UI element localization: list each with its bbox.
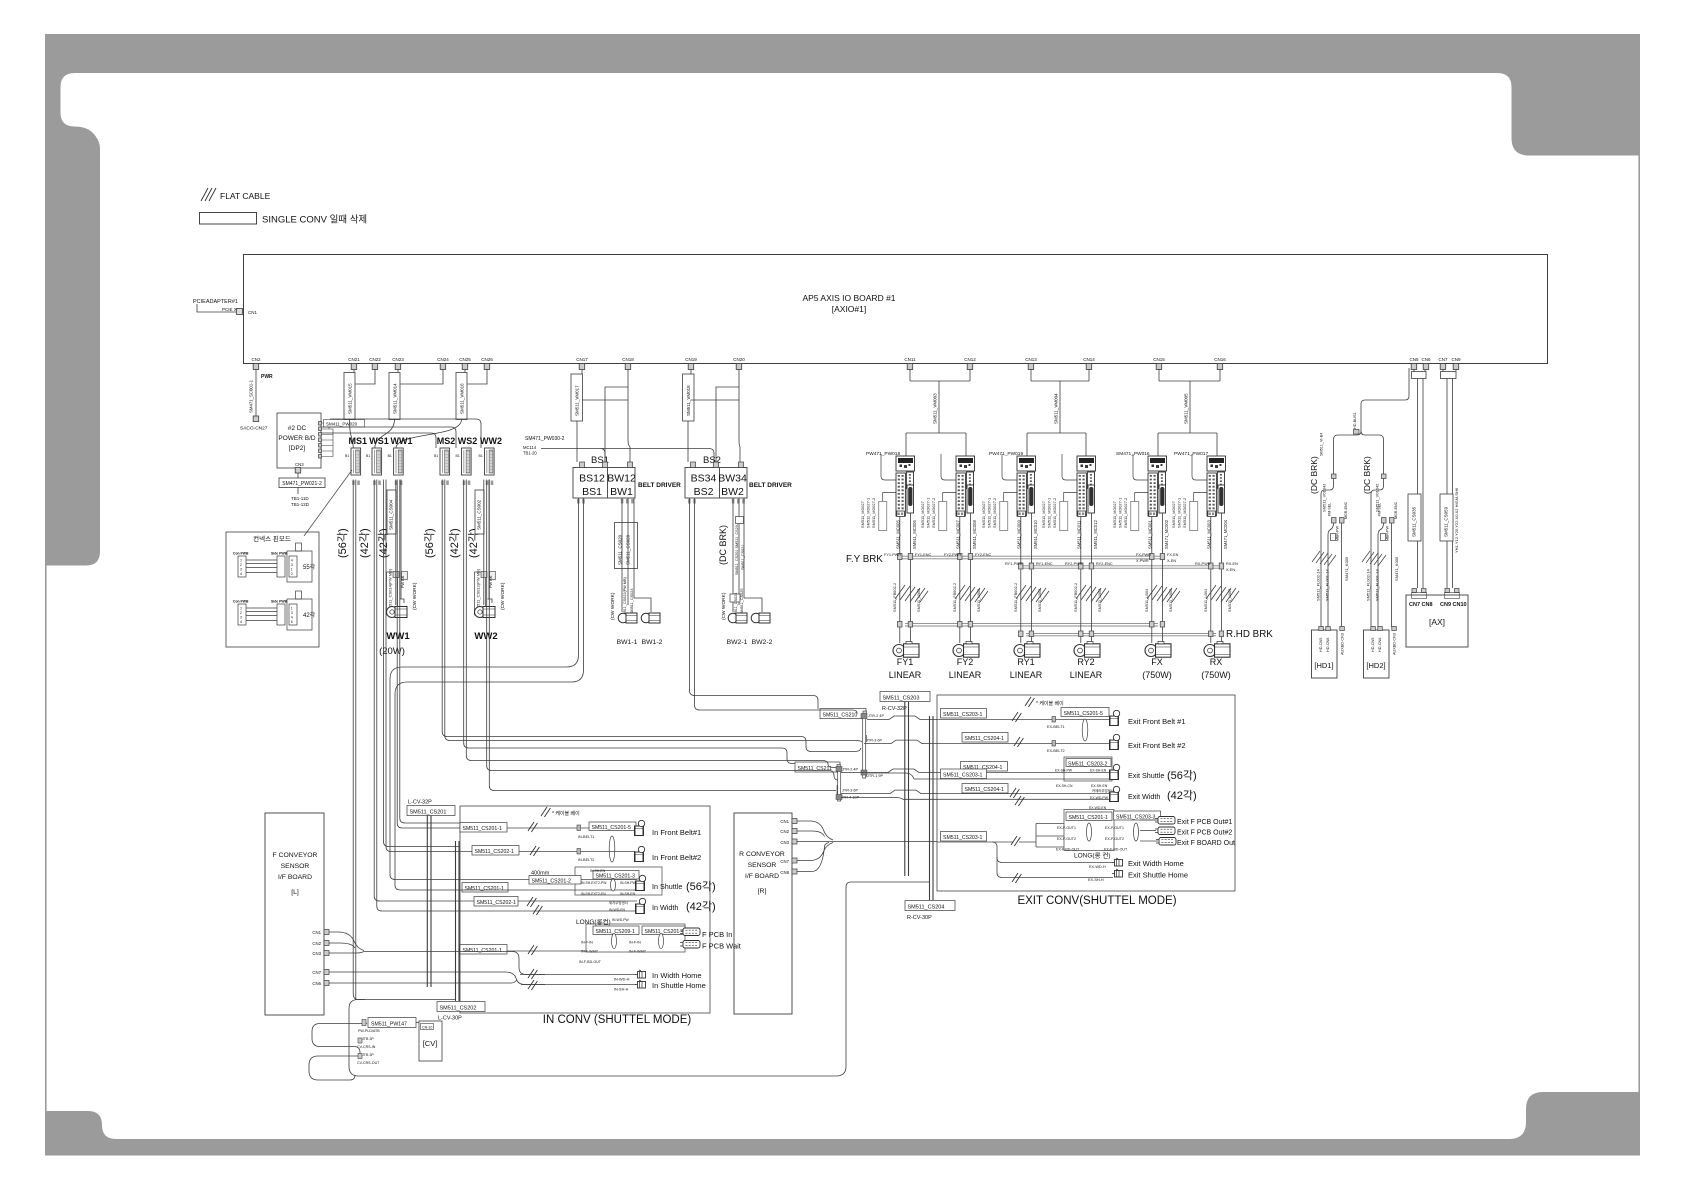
svg-text:SM511_CS202-1: SM511_CS202-1 [475, 849, 515, 855]
svg-text:CN20: CN20 [733, 357, 745, 362]
svg-text:Side PWB: Side PWB [271, 600, 288, 604]
svg-text:In Width: In Width [652, 903, 678, 912]
connector CN14 [1083, 357, 1095, 370]
svg-text:IN-F-IN: IN-F-IN [629, 941, 641, 945]
wire F sensor line right [364, 952, 545, 975]
svg-text:SM511_CS203-1: SM511_CS203-1 [943, 835, 983, 841]
wire PW030-2 horizontal [541, 449, 714, 463]
upper brake bus [898, 556, 1162, 559]
IN lens row1-2 [609, 836, 615, 862]
svg-text:SM511_CS035: SM511_CS035 [1412, 506, 1417, 537]
svg-text:CN7 CN8: CN7 CN8 [1409, 602, 1433, 608]
cable box SM511_CS002 [475, 490, 484, 534]
svg-text:SM511_CS211: SM511_CS211 [798, 766, 833, 772]
svg-text:(56각): (56각) [423, 528, 436, 558]
svg-text:SM511_MD027-2: SM511_MD027-2 [1052, 498, 1057, 528]
svg-text:SM511_MD027-1: SM511_MD027-1 [1047, 498, 1052, 528]
svg-text:SM511_CS201-1: SM511_CS201-1 [463, 826, 503, 832]
svg-text:(CW WORK): (CW WORK) [610, 592, 616, 620]
svg-text:SM511_CS203: SM511_CS203 [883, 696, 920, 702]
svg-text:IN-SH-EXT2-PW: IN-SH-EXT2-PW [581, 881, 607, 885]
CV box [419, 1021, 442, 1061]
svg-text:BS1: BS1 [582, 486, 602, 498]
svg-text:SENSOR: SENSOR [748, 862, 777, 869]
svg-text:IN-BELT1: IN-BELT1 [578, 835, 594, 839]
svg-text:CN14: CN14 [1083, 357, 1095, 362]
svg-text:BW34: BW34 [718, 473, 747, 485]
cable box SM511_CS004 [387, 490, 396, 534]
svg-text:(42각): (42각) [448, 528, 461, 558]
svg-text:Exit F PCB Out#1: Exit F PCB Out#1 [1177, 819, 1232, 826]
svg-text:CV-CRS-OUT: CV-CRS-OUT [357, 1061, 380, 1065]
svg-text:3: 3 [291, 611, 293, 615]
svg-text:SACO-CN27: SACO-CN27 [240, 426, 268, 432]
per-cluster bus drops FY2 [958, 513, 973, 643]
svg-text:B1: B1 [345, 454, 349, 458]
HD2 mid connector [1381, 534, 1386, 541]
svg-text:SM511_CS204: SM511_CS204 [908, 905, 945, 911]
svg-text:CN23: CN23 [392, 357, 404, 362]
svg-text:SM511_MD027-1: SM511_MD027-1 [987, 498, 992, 528]
svg-text:SM511_LB03: SM511_LB03 [1037, 589, 1042, 612]
svg-text:F PCB Wait: F PCB Wait [702, 942, 742, 951]
DP2 right edge pins [319, 422, 322, 459]
belt driver B-pin marks [577, 499, 745, 504]
svg-text:CN1: CN1 [312, 930, 321, 935]
wires CN17 CN18 to belt driver 1 [577, 370, 628, 463]
svg-text:LINEAR: LINEAR [1070, 670, 1103, 680]
svg-text:BW1: BW1 [610, 486, 633, 498]
svg-text:SM511_FL001-14: SM511_FL001-14 [1375, 569, 1380, 602]
label box SM511_PW147 [368, 1018, 416, 1028]
svg-text:EXIT CONV(SHUTTEL MODE): EXIT CONV(SHUTTEL MODE) [1017, 895, 1176, 907]
svg-text:PW471_PW017: PW471_PW017 [1174, 451, 1208, 457]
svg-text:In Front Belt#2: In Front Belt#2 [652, 853, 701, 862]
svg-text:SM511_MD027-2: SM511_MD027-2 [1123, 498, 1128, 528]
svg-text:R-CV-32P: R-CV-32P [882, 706, 907, 712]
svg-text:Exit F PCB Out#2: Exit F PCB Out#2 [1177, 830, 1232, 837]
svg-text:6: 6 [291, 620, 293, 624]
svg-text:CN12: CN12 [964, 357, 976, 362]
EXIT row4 Exit Width [937, 784, 1197, 811]
svg-text:F CONVEYOR: F CONVEYOR [273, 852, 318, 859]
HD1 wires to box [1321, 479, 1342, 628]
connector block WS2 [462, 448, 472, 475]
svg-text:CN16: CN16 [1214, 357, 1226, 362]
svg-text:HD-CN6: HD-CN6 [1378, 638, 1382, 652]
svg-text:* 케이블 베이: * 케이블 베이 [1036, 700, 1064, 707]
svg-text:IN-SH-EN: IN-SH-EN [590, 869, 606, 873]
svg-text:SM511_VM014: SM511_VM014 [393, 383, 398, 414]
R CONVEYOR SENSOR I/F BOARD box [734, 813, 792, 1014]
svg-text:SM471_PW030-2: SM471_PW030-2 [525, 436, 565, 442]
svg-text:3: 3 [240, 616, 242, 620]
connector block WW2 [485, 448, 495, 475]
board AXIO#1 rectangle [244, 255, 1548, 364]
cable L-CV-30P vertical pair [456, 841, 460, 1001]
svg-text:In Width Home: In Width Home [652, 971, 702, 980]
wire pair to IN row1 [397, 480, 460, 829]
svg-text:SM511_CS202: SM511_CS202 [440, 1006, 477, 1012]
svg-text:Exit Front Belt #2: Exit Front Belt #2 [1128, 741, 1186, 750]
svg-text:SM511_MC010: SM511_MC010 [1033, 520, 1038, 549]
svg-text:CN19: CN19 [685, 357, 697, 362]
servo cluster RX [1190, 454, 1226, 531]
svg-text:42각: 42각 [303, 612, 316, 619]
HD1 box [1312, 630, 1338, 678]
svg-text:WW2: WW2 [474, 631, 497, 642]
EXIT row7 Exit Shuttle Home [997, 857, 1188, 883]
svg-text:(20W): (20W) [379, 646, 405, 657]
svg-text:CN7: CN7 [312, 970, 321, 975]
DP2 pin ladder wires [322, 423, 334, 457]
pin table group 2 [238, 591, 312, 630]
wire BS2 pair to CS210 [690, 498, 858, 714]
svg-text:[CV]: [CV] [423, 1039, 438, 1048]
svg-text:SM511_LB05: SM511_LB05 [1227, 589, 1232, 612]
WW2 motor cable label box [475, 572, 486, 615]
legend flat-cable hatch symbol [201, 188, 216, 201]
frame thin right edge line [1638, 155, 1640, 1092]
HD1 mid connector [1331, 534, 1336, 541]
svg-text:SM511_CS201-5: SM511_CS201-5 [1064, 711, 1104, 717]
wire CN2 PWR down [255, 370, 257, 417]
svg-text:SM511_CS059: SM511_CS059 [1444, 506, 1449, 537]
per-cluster bus drops RX [1209, 513, 1224, 643]
svg-text:CN7: CN7 [780, 859, 789, 864]
svg-text:CN6: CN6 [312, 981, 321, 986]
svg-text:Con PWB: Con PWB [233, 552, 249, 556]
svg-text:In Shuttle: In Shuttle [652, 882, 682, 891]
belt driver box 1 [573, 468, 635, 499]
svg-text:SM471_K005: SM471_K005 [1394, 556, 1399, 581]
svg-text:BW1-1: BW1-1 [617, 639, 638, 646]
HD loop wire from board [1334, 368, 1410, 474]
svg-text:SM471_K005: SM471_K005 [1344, 556, 1349, 581]
IN row3 In Shuttle [460, 867, 716, 896]
svg-text:SM511_CS023: SM511_CS023 [630, 589, 634, 614]
connector CN19 [685, 357, 697, 370]
svg-text:IN-SH-PW: IN-SH-PW [620, 881, 637, 885]
connector CN17 [576, 357, 588, 370]
connector CN13 [1025, 357, 1037, 370]
connector CN12 [964, 357, 976, 370]
per-cluster bus drops RY1 (lower bus) [1019, 513, 1034, 643]
EXIT lens row1-2 [1082, 719, 1088, 741]
svg-text:SM511_CS004: SM511_CS004 [389, 499, 394, 530]
svg-text:SM511_FL002-14: SM511_FL002-14 [1366, 569, 1371, 602]
F board pins [312, 930, 321, 986]
svg-text:55각: 55각 [303, 564, 316, 571]
svg-text:(56각): (56각) [1167, 769, 1197, 782]
svg-text:LINEAR: LINEAR [889, 670, 922, 680]
wire R CN7 CN8 converge [797, 843, 833, 872]
svg-text:SM511_MD027-2: SM511_MD027-2 [992, 498, 997, 528]
connector CN9 [1451, 357, 1460, 370]
svg-text:SM511_VM017: SM511_VM017 [575, 385, 580, 416]
svg-text:HD-CN5: HD-CN5 [1371, 638, 1375, 652]
svg-text:LINEAR: LINEAR [949, 670, 982, 680]
svg-text:[AX]: [AX] [1429, 617, 1445, 627]
connector stub HD-BUS1 [1354, 430, 1360, 435]
svg-text:B1: B1 [456, 454, 460, 458]
HD2 box [1364, 630, 1390, 678]
svg-text:SM511_MC006: SM511_MC006 [912, 520, 917, 549]
svg-text:SM511_VM018: SM511_VM018 [686, 385, 691, 416]
svg-text:CN5: CN5 [1409, 357, 1418, 362]
svg-text:JTB 3P: JTB 3P [362, 1053, 374, 1057]
wires CN21 CN23 CN25 into cable boxes [354, 370, 465, 373]
lower brake bus [1020, 566, 1222, 568]
svg-text:MS2: MS2 [437, 436, 456, 446]
svg-text:IN-F-WAIT: IN-F-WAIT [629, 950, 647, 954]
svg-text:B1: B1 [388, 454, 392, 458]
svg-text:SM471_PW021-2: SM471_PW021-2 [282, 481, 322, 487]
PCIE wire [197, 304, 236, 312]
svg-text:컨넥스 핀모드: 컨넥스 핀모드 [253, 534, 291, 543]
svg-text:MC114: MC114 [523, 445, 537, 450]
wire big loop bottom [349, 882, 929, 1076]
JTR stubs [837, 711, 867, 798]
svg-text:SM511_VM016: SM511_VM016 [460, 383, 465, 414]
wires CN5 CN6 down to AX [1414, 370, 1425, 589]
svg-text:1: 1 [291, 568, 293, 572]
svg-text:WS1: WS1 [369, 436, 389, 446]
svg-text:SM511_FB002-2: SM511_FB002-2 [952, 583, 957, 612]
svg-text:MGR-ENC: MGR-ENC [1344, 501, 1348, 519]
cable box SM511_CS035 [1408, 494, 1421, 541]
pin table box [226, 532, 319, 647]
#2 DC POWER B/D [DP2] box [277, 413, 321, 468]
per-cluster bus drops FY1 [898, 513, 913, 643]
CN11 CN12 cable drop [906, 370, 970, 457]
flat cable hatches on motor drops [895, 585, 928, 602]
svg-text:IN-BELT2: IN-BELT2 [578, 858, 594, 862]
svg-text:SM511_MD027: SM511_MD027 [1171, 501, 1176, 528]
svg-text:MS1: MS1 [349, 436, 368, 446]
svg-text:SM511_CS202-1: SM511_CS202-1 [477, 900, 517, 906]
svg-text:SM511_CS204-1: SM511_CS204-1 [965, 736, 1005, 742]
svg-text:IN-F-BD-OUT: IN-F-BD-OUT [579, 960, 602, 964]
motor BW2-1 [728, 613, 747, 623]
svg-text:BW2-1: BW2-1 [727, 639, 748, 646]
svg-text:JTR-2 4P: JTR-2 4P [868, 714, 885, 718]
svg-text:HD-CN6: HD-CN6 [1326, 638, 1330, 652]
svg-text:1: 1 [291, 607, 293, 611]
svg-text:[HD1]: [HD1] [1314, 661, 1333, 670]
svg-text:위치무빙센서: 위치무빙센서 [609, 900, 628, 905]
frame thin left edge line [45, 565, 47, 1111]
svg-text:SM511_MD027-2: SM511_MD027-2 [931, 498, 936, 528]
svg-text:TB1-11D: TB1-11D [291, 496, 309, 501]
svg-text:F.Y BRK: F.Y BRK [846, 554, 883, 565]
svg-text:EX-SH-PW: EX-SH-PW [1055, 769, 1073, 773]
EXIT row1 Exit Front Belt #1 [937, 708, 1186, 730]
EXIT CONV box [937, 695, 1235, 891]
cable box SM511_CS020 double [615, 523, 638, 569]
svg-text:#2 DC: #2 DC [288, 425, 307, 432]
svg-text:CN1: CN1 [248, 310, 257, 315]
wire BS1 pair loop left to IN row3 [390, 498, 584, 890]
svg-text:SM511_FL001-14: SM511_FL001-14 [1325, 569, 1330, 602]
IN row5 F PCB [460, 924, 742, 964]
cable box SM511_VM014 [389, 373, 400, 420]
svg-text:MBR-PW: MBR-PW [1336, 525, 1340, 541]
svg-text:SM511_MC012: SM511_MC012 [1093, 520, 1098, 549]
connector CN21 [348, 357, 360, 370]
svg-text:In Shuttle Home: In Shuttle Home [652, 981, 706, 990]
cable R-CV-30P vertical pair [930, 716, 934, 900]
label box SM471_PW021-2 [279, 478, 325, 488]
svg-text:SM511_CS025: SM511_CS025 [740, 589, 744, 614]
svg-text:FX-EN: FX-EN [1167, 553, 1179, 557]
svg-text:RX: RX [1210, 657, 1223, 667]
svg-text:CN7: CN7 [1438, 357, 1447, 362]
connector CN6 [1421, 357, 1430, 370]
svg-text:SM511_V0104J: SM511_V0104J [1322, 484, 1327, 512]
leader diagonal to MS1 [304, 470, 352, 536]
motor bus upper [905, 624, 1158, 626]
EXIT row3 Exit Shuttle [937, 757, 1197, 788]
svg-text:RX-EN: RX-EN [1226, 562, 1238, 566]
svg-text:IN-SH-EXT2-EN: IN-SH-EXT2-EN [581, 892, 606, 896]
WW1 motor cable label box [387, 572, 398, 615]
svg-text:SM511_MD027-1: SM511_MD027-1 [926, 498, 931, 528]
frame top band with side tabs [45, 34, 1640, 566]
svg-text:AUXBD-CN3: AUXBD-CN3 [1341, 633, 1345, 655]
svg-text:PCIEADAPTER#1: PCIEADAPTER#1 [193, 299, 238, 305]
svg-text:CN22: CN22 [369, 357, 381, 362]
svg-text:2: 2 [240, 563, 242, 567]
svg-text:SENSOR: SENSOR [281, 863, 310, 870]
svg-text:4: 4 [291, 559, 293, 563]
EXIT row6 Exit Width Home [992, 842, 1184, 869]
svg-text:* 케이블 베이: * 케이블 베이 [552, 810, 580, 817]
svg-text:SM511_CS203-2: SM511_CS203-2 [1068, 762, 1108, 768]
svg-text:TB1-20: TB1-20 [523, 451, 537, 456]
label SM511_CS202 L-CV-30P [437, 1002, 485, 1012]
svg-text:AP5 AXIS IO BOARD #1: AP5 AXIS IO BOARD #1 [802, 293, 895, 303]
wire R CN1 CN2 converge [797, 821, 833, 840]
svg-text:[L]: [L] [291, 889, 299, 896]
svg-text:WW1: WW1 [386, 631, 410, 642]
motor FX [1145, 642, 1171, 658]
motor FY2 [953, 642, 979, 658]
motor RY2 [1074, 642, 1100, 658]
svg-text:IN-WD-H: IN-WD-H [614, 978, 630, 982]
svg-text:BELT DRIVER: BELT DRIVER [638, 482, 681, 489]
connector block MS1 [351, 448, 361, 475]
BW1 wires down [622, 498, 651, 612]
svg-text:PW471_PW019: PW471_PW019 [989, 451, 1023, 457]
svg-text:CN1: CN1 [780, 819, 789, 824]
svg-text:CN24: CN24 [437, 357, 449, 362]
svg-text:SM511_VI-B4: SM511_VI-B4 [1320, 433, 1324, 456]
svg-text:CN2: CN2 [312, 941, 321, 946]
svg-text:IN-SH-EN: IN-SH-EN [620, 892, 636, 896]
svg-text:R-CV-30P: R-CV-30P [907, 915, 932, 921]
svg-text:PW BK: PW BK [401, 575, 405, 588]
svg-text:CV-CRS-IN: CV-CRS-IN [357, 1045, 376, 1049]
svg-text:X-EN: X-EN [1167, 559, 1176, 563]
svg-text:1: 1 [240, 559, 242, 563]
svg-text:SM511_CS201-1: SM511_CS201-1 [1069, 815, 1109, 821]
EXIT legend [1025, 697, 1034, 707]
motor FY1 [893, 642, 919, 658]
svg-text:EX-F-OUT1: EX-F-OUT1 [1105, 826, 1124, 830]
connector block MS2 [440, 448, 450, 475]
svg-text:BS12: BS12 [579, 473, 605, 485]
svg-text:(750W): (750W) [1201, 670, 1231, 680]
svg-text:FY2-ENC: FY2-ENC [975, 553, 992, 557]
connector CN5 [1409, 357, 1418, 370]
EXIT row5 F PCB Out group [937, 810, 1235, 860]
svg-text:CN3: CN3 [312, 951, 321, 956]
svg-text:SM511_PW147: SM511_PW147 [371, 1022, 407, 1028]
label box SM511_CS211 [795, 762, 840, 772]
IN row2 In Front Belt#2 [460, 846, 701, 863]
IN row1 In Front Belt#1 [460, 820, 701, 839]
svg-text:3: 3 [291, 563, 293, 567]
rotated MD027 label columns [860, 498, 1187, 528]
svg-text:L-CV-32P: L-CV-32P [408, 800, 432, 806]
svg-text:FY1-ENC: FY1-ENC [915, 553, 932, 557]
svg-text:SM511_CS201-3: SM511_CS201-3 [596, 874, 636, 880]
svg-text:WS2: WS2 [458, 436, 478, 446]
svg-text:MBR-PW: MBR-PW [1386, 525, 1390, 541]
servo cluster FY2 [939, 454, 975, 531]
wire F CN1 CN2 CN3 converge [329, 932, 364, 953]
svg-text:SM511_MC008: SM511_MC008 [972, 520, 977, 549]
motor RY1 [1014, 642, 1040, 658]
svg-text:EX-SH-EN: EX-SH-EN [1090, 769, 1107, 773]
connector block WS1 [372, 448, 382, 475]
svg-text:MGR-ENC: MGR-ENC [1394, 501, 1398, 519]
svg-text:SM511_CS014(PW MB): SM511_CS014(PW MB) [388, 568, 393, 612]
connector block CN7-CN9 [1441, 372, 1457, 379]
wire MS2 pair bundle right [442, 480, 862, 752]
svg-text:JTR-2 4P: JTR-2 4P [842, 768, 859, 772]
svg-text:RY2-ENC: RY2-ENC [1096, 562, 1113, 566]
cable L-CV-32P vertical pair [427, 816, 431, 988]
motor RX [1204, 642, 1230, 658]
wire MS1 pair to bottom loop [353, 480, 365, 1000]
svg-text:SM511_MD027-1: SM511_MD027-1 [866, 498, 871, 528]
svg-text:EX-WD-PW: EX-WD-PW [1090, 796, 1109, 800]
svg-text:SM511_CS012(PW MB): SM511_CS012(PW MB) [476, 568, 481, 612]
svg-text:X-EN: X-EN [1226, 568, 1235, 572]
svg-text:[AXIO#1]: [AXIO#1] [832, 304, 867, 314]
cable box SM511_VM017 [571, 374, 583, 421]
svg-text:SM511_CS201 SM511_CS20-1: SM511_CS201 SM511_CS20-1 [735, 522, 739, 575]
svg-text:CN18: CN18 [622, 357, 634, 362]
svg-text:SM511_CS201-5: SM511_CS201-5 [592, 825, 632, 831]
svg-text:[HD2]: [HD2] [1366, 661, 1385, 670]
svg-text:(750W): (750W) [1142, 670, 1172, 680]
svg-text:Exit Width: Exit Width [1128, 792, 1160, 801]
connector CN22 [369, 357, 381, 370]
svg-text:HD-BUS1: HD-BUS1 [1353, 412, 1357, 429]
WW1 motor wires [396, 480, 404, 606]
svg-text:JTB 3P: JTB 3P [362, 1037, 374, 1041]
wire F CN7 CN6 to row7 [329, 972, 545, 985]
svg-text:POWER B/D: POWER B/D [278, 435, 316, 442]
svg-text:(CW WORK): (CW WORK) [500, 582, 506, 610]
svg-text:IN-WD-EN: IN-WD-EN [609, 908, 626, 912]
svg-text:FY2: FY2 [957, 657, 974, 667]
svg-text:LONG(롱 컨): LONG(롱 컨) [1074, 851, 1111, 860]
belt driver box 2 [685, 468, 747, 499]
